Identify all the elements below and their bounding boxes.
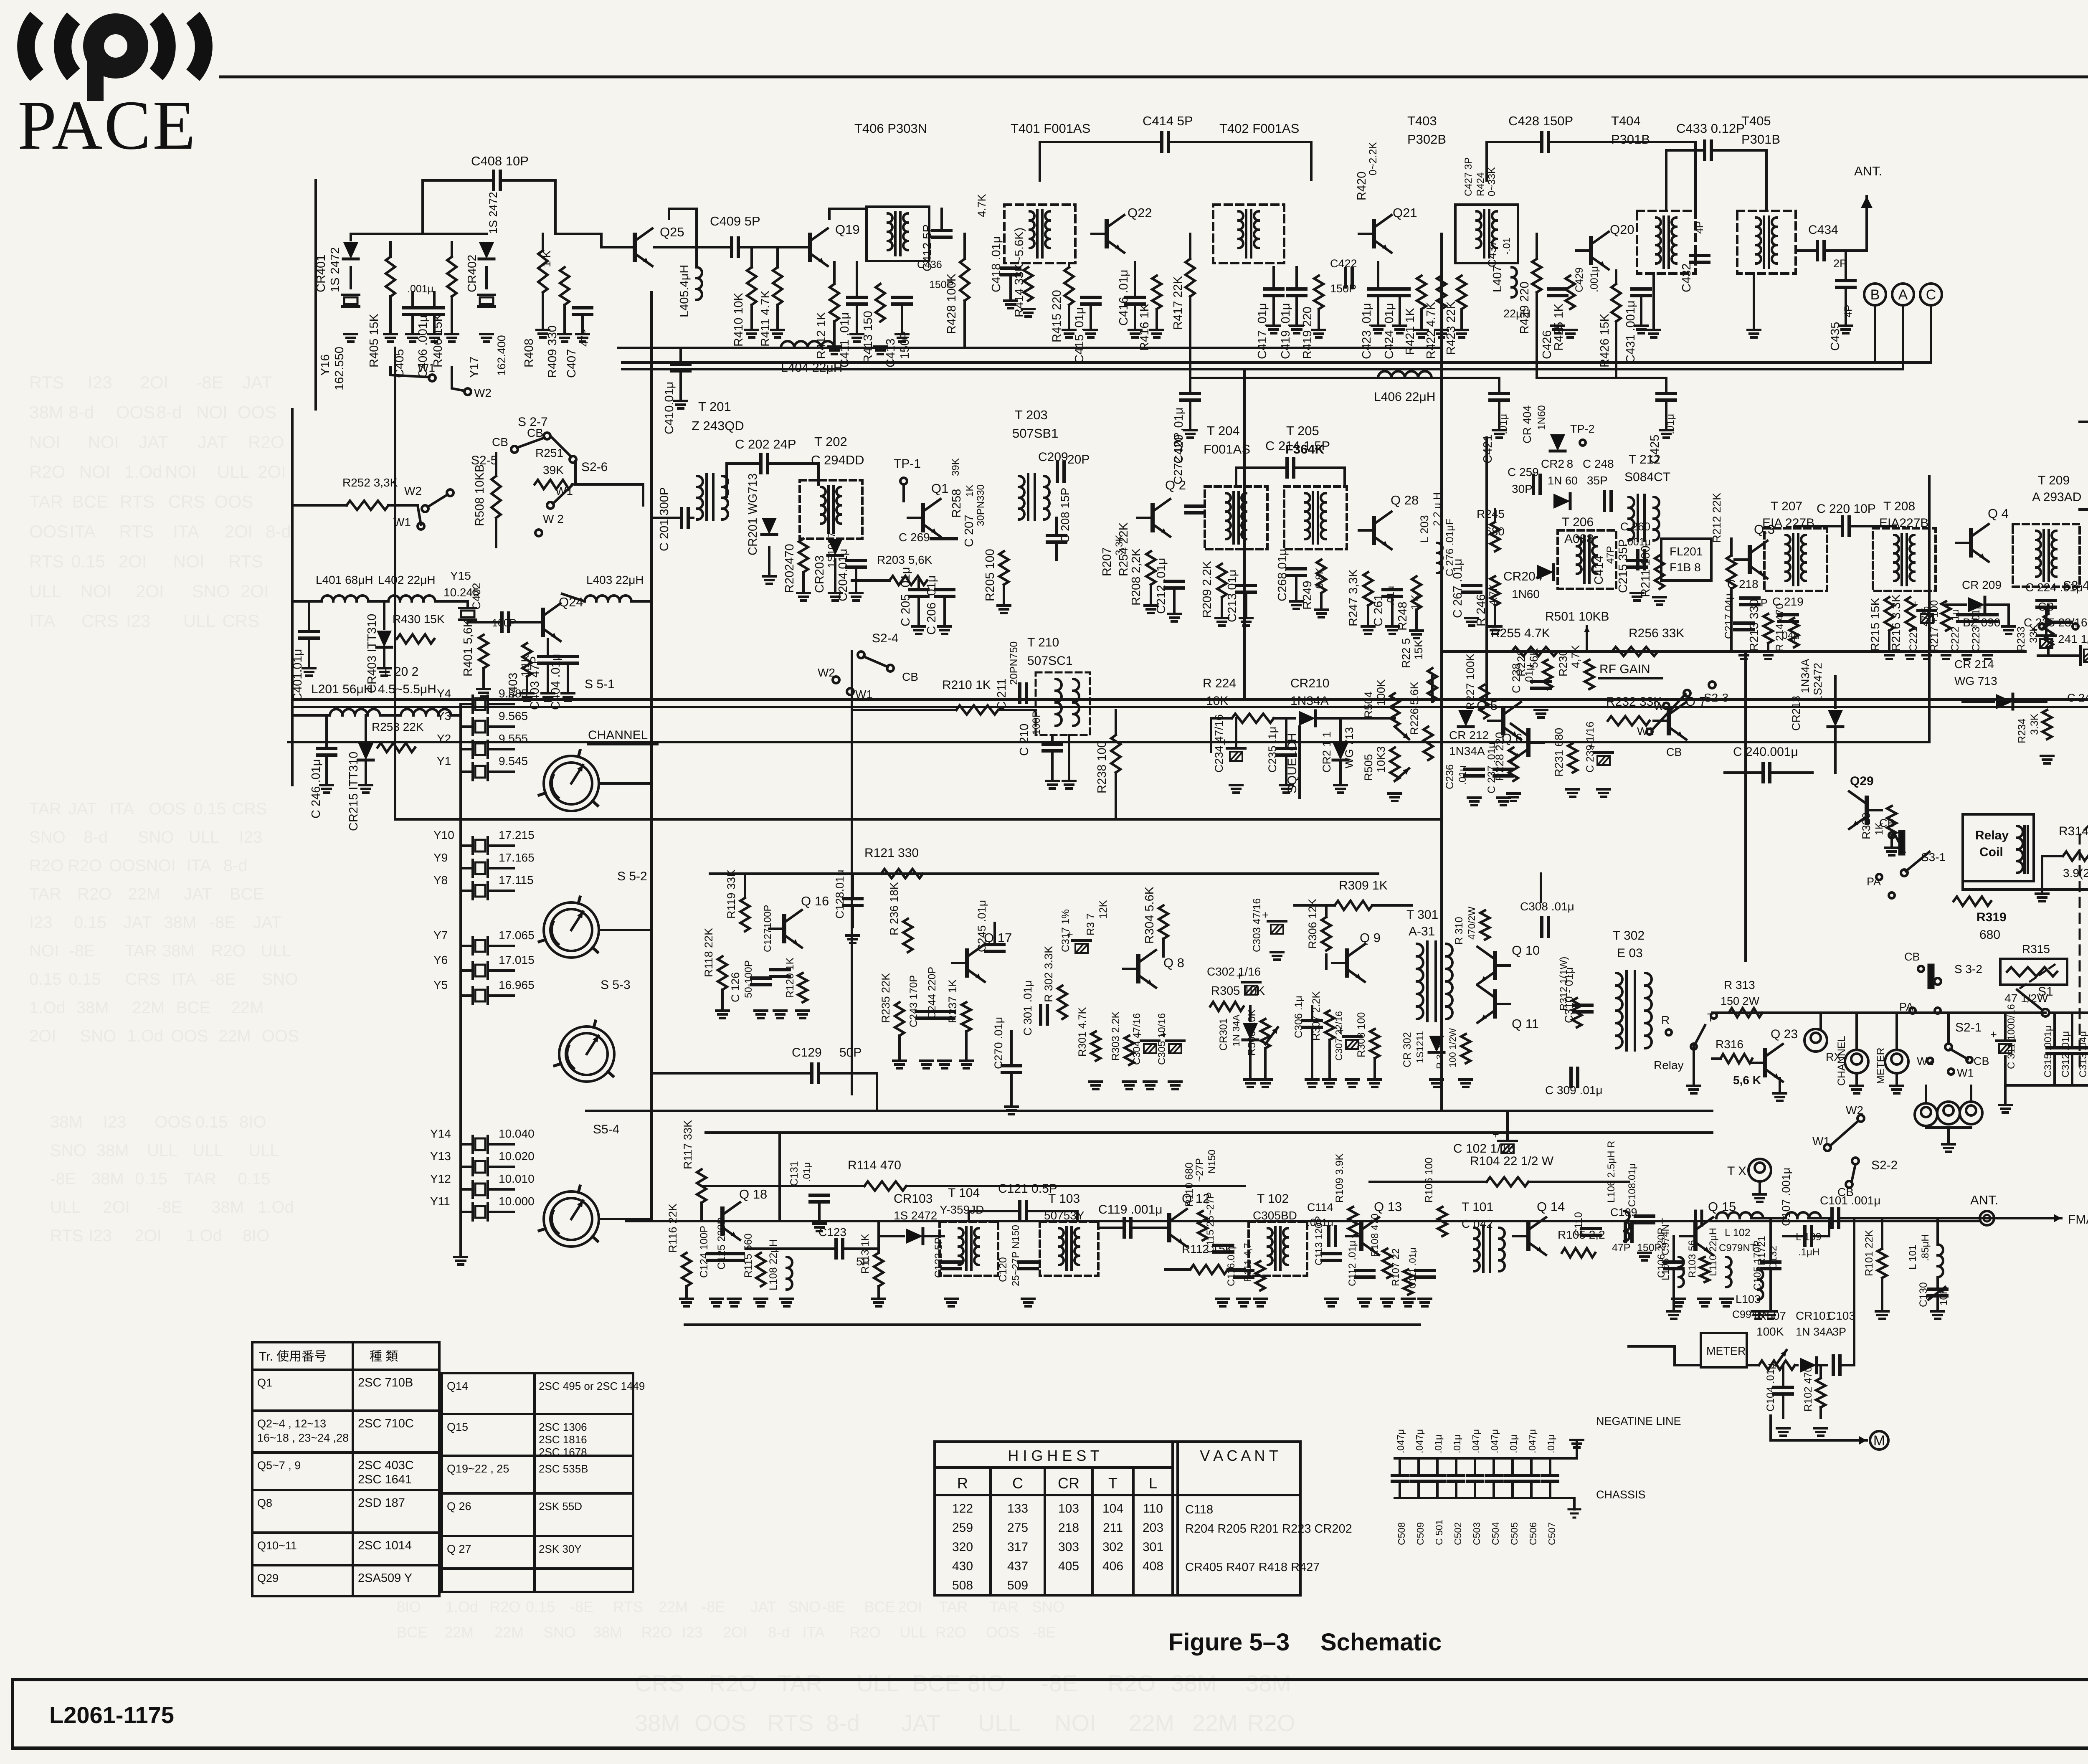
wire long vertical right of row1 xyxy=(1440,234,1443,1111)
svg-text:25~27P N150: 25~27P N150 xyxy=(1010,1225,1021,1286)
svg-text:JAT: JAT xyxy=(198,432,228,452)
svg-text:R426 15K: R426 15K xyxy=(1598,313,1612,367)
svg-text:38M: 38M xyxy=(96,1141,129,1160)
svg-text:0.15: 0.15 xyxy=(526,1598,555,1615)
svg-text:C 220 10P: C 220 10P xyxy=(1817,502,1876,516)
resistor R412 1K xyxy=(830,284,839,322)
svg-text:-8E: -8E xyxy=(50,1170,76,1188)
transformer T205 xyxy=(1284,487,1347,549)
svg-text:C 294DD: C 294DD xyxy=(811,453,864,467)
svg-text:R424: R424 xyxy=(1475,172,1486,196)
svg-text:JAT: JAT xyxy=(184,885,212,903)
svg-text:L2061-1175: L2061-1175 xyxy=(49,1702,174,1728)
svg-text:ULL: ULL xyxy=(29,581,61,601)
svg-text:Y12: Y12 xyxy=(430,1172,451,1185)
wire main bus A xyxy=(292,698,2088,701)
svg-text:ULL: ULL xyxy=(978,1710,1021,1736)
svg-text:R252 3,3K: R252 3,3K xyxy=(342,476,398,489)
svg-text:Figure 5–3: Figure 5–3 xyxy=(1168,1629,1290,1656)
svg-text:R116 22K: R116 22K xyxy=(666,1204,679,1253)
svg-text:R22 5: R22 5 xyxy=(1400,638,1412,668)
svg-text:-8E: -8E xyxy=(69,942,95,960)
svg-text:R212 22K: R212 22K xyxy=(1710,493,1723,543)
crystal Y16 xyxy=(350,267,352,288)
transformer T406 xyxy=(867,207,929,261)
svg-text:R415 220: R415 220 xyxy=(1050,290,1064,342)
svg-text:Q 14: Q 14 xyxy=(1537,1199,1565,1214)
svg-text:S2-2: S2-2 xyxy=(1871,1158,1898,1172)
svg-text:ULL: ULL xyxy=(261,942,291,960)
svg-text:T 103: T 103 xyxy=(1048,1192,1080,1206)
svg-text:1.Od: 1.Od xyxy=(258,1198,294,1217)
transistor Q21 xyxy=(1372,221,1376,246)
svg-text:T 301: T 301 xyxy=(1406,908,1438,922)
svg-text:C424 .01μ: C424 .01μ xyxy=(1383,303,1396,359)
svg-text:R253 22K: R253 22K xyxy=(372,720,424,733)
svg-text:2OI: 2OI xyxy=(140,373,168,392)
svg-text:38M: 38M xyxy=(91,1170,124,1188)
svg-text:R2O: R2O xyxy=(29,857,63,875)
svg-text:C302 1/16: C302 1/16 xyxy=(1207,965,1261,978)
svg-text:CR210: CR210 xyxy=(1290,677,1329,690)
filter FL201 xyxy=(1661,539,1711,580)
svg-text:R 310: R 310 xyxy=(1453,917,1465,945)
svg-text:C432: C432 xyxy=(1680,264,1693,292)
svg-text:C116.01μ: C116.01μ xyxy=(1226,1243,1237,1286)
svg-text:9.585: 9.585 xyxy=(499,687,528,700)
svg-text:Q 26: Q 26 xyxy=(447,1500,471,1513)
svg-text:L 203: L 203 xyxy=(1418,515,1431,543)
svg-text:35P: 35P xyxy=(1587,474,1608,487)
svg-text:T 209: T 209 xyxy=(2038,474,2070,487)
wire drop c430 xyxy=(1485,438,1488,700)
svg-text:430: 430 xyxy=(952,1559,973,1573)
svg-text:R216 3.3K: R216 3.3K xyxy=(1890,594,1903,651)
svg-text:50P: 50P xyxy=(839,1046,862,1059)
svg-text:Q 17: Q 17 xyxy=(984,930,1012,945)
svg-text:-8E: -8E xyxy=(210,970,236,988)
svg-text:CR2 1 1: CR2 1 1 xyxy=(1320,731,1333,773)
svg-text:NOI: NOI xyxy=(165,462,196,482)
svg-text:Y11: Y11 xyxy=(430,1195,450,1208)
transformer T212 xyxy=(1629,497,1634,508)
svg-text:FL201: FL201 xyxy=(1670,545,1703,558)
svg-text:20P: 20P xyxy=(1067,453,1090,466)
svg-text:R117 33K: R117 33K xyxy=(682,1120,694,1169)
svg-text:CB: CB xyxy=(902,670,918,683)
resistor R415 220 xyxy=(1064,267,1074,305)
wire rail power xyxy=(1712,1011,2045,1014)
wire audio lower rail xyxy=(706,1131,1712,1134)
svg-text:RTS: RTS xyxy=(228,551,263,571)
resistor R410 10K xyxy=(747,267,756,305)
svg-text:.01μ: .01μ xyxy=(1508,1435,1519,1453)
svg-text:.001μ: .001μ xyxy=(407,283,433,295)
svg-text:I23: I23 xyxy=(88,373,112,392)
capacitor C431 xyxy=(1632,287,1650,291)
svg-text:S 3-2: S 3-2 xyxy=(1954,963,1982,976)
svg-text:2SC 1306: 2SC 1306 xyxy=(539,1421,587,1433)
capacitor C421 .01u xyxy=(1490,392,1508,395)
lamp METER xyxy=(1885,1050,1908,1073)
svg-text:R207: R207 xyxy=(1100,547,1114,576)
svg-text:C 240.001μ: C 240.001μ xyxy=(1733,745,1798,759)
svg-text:38M: 38M xyxy=(593,1624,622,1641)
transformer T301 xyxy=(1417,944,1423,956)
svg-text:Y13: Y13 xyxy=(430,1150,451,1163)
top rule xyxy=(220,76,2088,79)
lamp RX xyxy=(1804,1029,1827,1052)
svg-text:N150: N150 xyxy=(1206,1150,1218,1173)
svg-text:R 224: R 224 xyxy=(1203,677,1236,690)
svg-text:I23: I23 xyxy=(682,1624,703,1641)
svg-text:2SC 403C: 2SC 403C xyxy=(358,1459,414,1472)
svg-text:C111 .01μ: C111 .01μ xyxy=(1407,1247,1418,1289)
svg-text:SNO: SNO xyxy=(29,828,66,847)
svg-text:303: 303 xyxy=(1058,1540,1079,1554)
transistor Q25 xyxy=(633,235,637,260)
svg-text:CRS: CRS xyxy=(635,1670,684,1696)
svg-text:TAR: TAR xyxy=(184,1170,216,1188)
svg-text:2OI: 2OI xyxy=(723,1624,747,1641)
svg-text:2OI: 2OI xyxy=(898,1598,922,1615)
svg-text:T 302: T 302 xyxy=(1613,929,1645,943)
svg-text:3.3K: 3.3K xyxy=(2029,713,2040,735)
svg-text:320: 320 xyxy=(952,1540,973,1554)
svg-text:CR101: CR101 xyxy=(1796,1309,1832,1322)
svg-text:3P: 3P xyxy=(1832,1326,1846,1338)
svg-text:38M: 38M xyxy=(162,942,195,960)
svg-text:Relay: Relay xyxy=(1654,1059,1684,1072)
svg-text:ULL: ULL xyxy=(147,1141,177,1160)
svg-text:T 202: T 202 xyxy=(814,434,847,449)
svg-text:Y14: Y14 xyxy=(430,1127,451,1140)
svg-text:CR2 8: CR2 8 xyxy=(1541,457,1573,470)
svg-text:T 203: T 203 xyxy=(1015,408,1048,422)
svg-text:2SC 535B: 2SC 535B xyxy=(539,1462,588,1475)
svg-text:162.550: 162.550 xyxy=(333,347,346,390)
wire drop s53 to tx xyxy=(778,1133,781,1221)
svg-text:Y8: Y8 xyxy=(433,874,448,887)
svg-text:R2O: R2O xyxy=(29,462,65,482)
svg-text:1.Od: 1.Od xyxy=(446,1598,478,1615)
wire s51 out xyxy=(600,782,651,785)
svg-text:8-d: 8-d xyxy=(266,522,291,541)
diode CR401 xyxy=(343,242,358,259)
svg-text:2SA509 Y: 2SA509 Y xyxy=(358,1571,412,1585)
svg-text:R115 560: R115 560 xyxy=(742,1233,754,1278)
transistor Q23 xyxy=(1763,1050,1767,1075)
svg-text:R248: R248 xyxy=(1396,602,1409,631)
svg-text:0.15: 0.15 xyxy=(74,913,106,932)
svg-text:0.15: 0.15 xyxy=(195,1113,228,1131)
wire drop right xyxy=(1928,476,1931,742)
wire s2 bus xyxy=(575,461,643,484)
svg-text:SNO: SNO xyxy=(543,1624,576,1641)
svg-text:OOS: OOS xyxy=(262,1027,299,1045)
svg-text:133: 133 xyxy=(1007,1502,1028,1516)
resistor R423 22K xyxy=(1457,276,1466,309)
svg-text:47P: 47P xyxy=(1605,546,1616,564)
svg-text:2SC 1678: 2SC 1678 xyxy=(539,1446,587,1458)
svg-text:C434: C434 xyxy=(1808,223,1838,237)
wire bus row2 bottom xyxy=(395,818,1442,821)
transistor Q7 xyxy=(1667,708,1671,733)
svg-text:T: T xyxy=(1108,1475,1117,1492)
capacitor C401 .01u xyxy=(300,630,318,633)
svg-text:-8E: -8E xyxy=(570,1598,593,1615)
svg-text:NOI: NOI xyxy=(29,942,59,960)
transformer T405 xyxy=(1737,211,1796,274)
svg-text:2SC 710B: 2SC 710B xyxy=(358,1376,413,1389)
svg-text:470/2W: 470/2W xyxy=(1466,906,1477,940)
wire left drop xyxy=(291,409,294,785)
svg-text:.047μ: .047μ xyxy=(1395,1429,1406,1453)
wire left top drop xyxy=(314,180,317,409)
svg-text:R505: R505 xyxy=(1362,754,1375,781)
svg-text:1N34A: 1N34A xyxy=(1799,659,1812,693)
svg-text:S2-1: S2-1 xyxy=(1955,1021,1982,1034)
svg-text:Q15: Q15 xyxy=(447,1421,468,1433)
svg-text:C315 .001μ: C315 .001μ xyxy=(2042,1025,2054,1077)
svg-text:R205 100: R205 100 xyxy=(983,549,997,601)
diode CR215 xyxy=(358,743,373,760)
svg-text:16~18 , 23~24 ,28: 16~18 , 23~24 ,28 xyxy=(257,1432,349,1444)
svg-text:.01μ: .01μ xyxy=(1452,1435,1462,1453)
svg-text:C508: C508 xyxy=(1396,1522,1407,1545)
svg-text:Q19: Q19 xyxy=(835,222,860,237)
svg-text:+: + xyxy=(1135,1028,1142,1041)
svg-text:C506: C506 xyxy=(1528,1522,1538,1545)
svg-text:C112 .01μ: C112 .01μ xyxy=(1347,1241,1358,1286)
transformer T302 xyxy=(1616,973,1622,986)
svg-text:15K: 15K xyxy=(1412,640,1425,660)
svg-text:.047μ: .047μ xyxy=(1470,1429,1481,1453)
svg-text:RX: RX xyxy=(1826,1051,1842,1063)
svg-text:R308 100: R308 100 xyxy=(1356,1012,1367,1057)
svg-text:C 201 300P: C 201 300P xyxy=(658,487,671,551)
svg-text:S084CT: S084CT xyxy=(1624,470,1670,484)
svg-text:R215 15K: R215 15K xyxy=(1869,597,1882,651)
svg-text:+: + xyxy=(1493,1128,1499,1141)
svg-text:Q2~4 , 12~13: Q2~4 , 12~13 xyxy=(257,1417,326,1430)
svg-text:+: + xyxy=(1160,1028,1167,1041)
svg-text:~27P: ~27P xyxy=(1194,1158,1205,1182)
svg-text:T 101: T 101 xyxy=(1462,1200,1493,1214)
svg-text:150 2W: 150 2W xyxy=(1721,995,1760,1007)
svg-text:R: R xyxy=(957,1475,968,1492)
svg-text:C402: C402 xyxy=(470,583,483,610)
svg-text:Y-359JD: Y-359JD xyxy=(940,1203,984,1216)
svg-text:Q10~11: Q10~11 xyxy=(257,1539,297,1552)
svg-text:38M: 38M xyxy=(635,1710,680,1736)
svg-text:4,7K: 4,7K xyxy=(1569,645,1582,668)
svg-text:TAR: TAR xyxy=(990,1598,1019,1615)
svg-text:R255 4.7K: R255 4.7K xyxy=(1491,626,1550,640)
svg-text:C109: C109 xyxy=(1610,1206,1637,1219)
svg-text:406: 406 xyxy=(1102,1559,1123,1573)
svg-text:C114: C114 xyxy=(1307,1201,1333,1214)
svg-text:TP-1: TP-1 xyxy=(894,457,921,471)
svg-text:L 102: L 102 xyxy=(1725,1227,1751,1239)
svg-text:22M: 22M xyxy=(218,1027,251,1045)
svg-text:17.115: 17.115 xyxy=(499,874,534,887)
svg-text:R2O: R2O xyxy=(641,1624,672,1641)
svg-text:2SC 1014: 2SC 1014 xyxy=(358,1539,412,1552)
svg-text:-8E: -8E xyxy=(1032,1624,1056,1641)
svg-text:Q14: Q14 xyxy=(447,1380,468,1392)
svg-text:R430 15K: R430 15K xyxy=(393,613,445,626)
svg-text:8-d: 8-d xyxy=(768,1624,790,1641)
svg-text:R114 470: R114 470 xyxy=(848,1158,901,1172)
svg-text:R238 100: R238 100 xyxy=(1095,741,1109,793)
svg-text:T 205: T 205 xyxy=(1286,423,1319,438)
svg-text:302: 302 xyxy=(1102,1540,1123,1554)
svg-text:2SC 495 or 2SC 1449: 2SC 495 or 2SC 1449 xyxy=(539,1380,645,1392)
svg-text:3.9(2W): 3.9(2W) xyxy=(2063,867,2088,879)
svg-text:OOS: OOS xyxy=(171,1027,208,1045)
svg-text:R2O: R2O xyxy=(709,1670,757,1696)
svg-text:T X: T X xyxy=(1727,1164,1746,1178)
svg-text:C427 3P: C427 3P xyxy=(1463,157,1474,196)
svg-text:2OI: 2OI xyxy=(225,522,253,541)
wire main bus B xyxy=(292,706,2088,708)
svg-text:Z 243QD: Z 243QD xyxy=(692,418,744,433)
svg-text:C131: C131 xyxy=(788,1161,800,1186)
svg-text:C410.01μ: C410.01μ xyxy=(663,382,676,434)
svg-text:R412 1K: R412 1K xyxy=(815,312,828,359)
svg-text:R501 10KB: R501 10KB xyxy=(1545,610,1609,623)
transistor Q12 xyxy=(1167,1215,1171,1240)
svg-text:R101 22K: R101 22K xyxy=(1863,1229,1875,1276)
transformer T104 xyxy=(940,1222,998,1276)
svg-text:TAR: TAR xyxy=(29,885,61,903)
svg-text:20PN750: 20PN750 xyxy=(1008,641,1020,685)
svg-text:CB: CB xyxy=(1666,746,1682,758)
svg-text:BCE: BCE xyxy=(864,1598,895,1615)
svg-text:C507: C507 xyxy=(1546,1522,1557,1545)
svg-text:R113 1K: R113 1K xyxy=(859,1234,871,1274)
svg-text:-8E: -8E xyxy=(196,373,223,392)
svg-text:R319: R319 xyxy=(1977,910,2007,924)
svg-text:S 5-3: S 5-3 xyxy=(601,978,631,992)
svg-text:T401 F001AS: T401 F001AS xyxy=(1011,121,1090,136)
svg-text:R202470: R202470 xyxy=(783,544,796,593)
svg-text:H I G H E S T: H I G H E S T xyxy=(1008,1447,1099,1464)
svg-text:2OI: 2OI xyxy=(119,551,147,571)
svg-text:2OI: 2OI xyxy=(103,1198,129,1217)
svg-text:R401 5,6K: R401 5,6K xyxy=(461,619,475,677)
transistor Q13 xyxy=(1359,1224,1363,1249)
transistor Q8 xyxy=(1136,956,1140,981)
svg-text:R2O: R2O xyxy=(935,1624,966,1641)
svg-text:RTS: RTS xyxy=(50,1227,83,1245)
svg-text:SNO: SNO xyxy=(192,581,230,601)
svg-text:P301B: P301B xyxy=(1611,132,1650,147)
svg-text:38M: 38M xyxy=(1171,1670,1216,1696)
wire relay xyxy=(1693,1047,1695,1086)
svg-text:122: 122 xyxy=(952,1502,973,1516)
svg-text:NOI: NOI xyxy=(88,432,119,452)
svg-text:R417 22K: R417 22K xyxy=(1171,276,1185,330)
transformer T403 xyxy=(1455,205,1518,263)
transistor Q16 xyxy=(782,916,786,941)
crystal Y17 xyxy=(485,267,488,288)
svg-text:R203 5,6K: R203 5,6K xyxy=(877,553,933,566)
svg-text:C 269: C 269 xyxy=(899,531,930,544)
svg-text:R: R xyxy=(1661,1014,1670,1026)
svg-text:ULL: ULL xyxy=(183,611,215,631)
svg-text:PACE: PACE xyxy=(18,86,197,164)
wire long drop q25-tx xyxy=(650,292,653,1221)
svg-text:OOS: OOS xyxy=(238,402,276,422)
svg-text:RTS: RTS xyxy=(29,551,64,571)
wire s52 out xyxy=(600,929,651,931)
svg-text:22M: 22M xyxy=(128,885,160,903)
svg-text:R233: R233 xyxy=(2015,626,2027,651)
svg-text:C428 150P: C428 150P xyxy=(1508,114,1573,128)
svg-text:R208 2,2K: R208 2,2K xyxy=(1130,548,1143,606)
lamp CHANNEL xyxy=(1845,1050,1868,1073)
svg-text:C 248: C 248 xyxy=(1583,457,1614,470)
svg-text:RTS: RTS xyxy=(120,492,155,512)
svg-text:ITA: ITA xyxy=(186,857,211,875)
svg-text:C414 5P: C414 5P xyxy=(1143,114,1193,128)
svg-text:C108.01μ: C108.01μ xyxy=(1627,1163,1638,1207)
svg-text:38M: 38M xyxy=(76,999,109,1017)
resistor R426 15K xyxy=(1612,284,1621,322)
svg-text:W2: W2 xyxy=(474,386,492,399)
svg-text:8-d: 8-d xyxy=(223,857,248,875)
svg-text:R425 1K: R425 1K xyxy=(1552,303,1566,351)
svg-text:R204 R205 R201 R223 CR202: R204 R205 R201 R223 CR202 xyxy=(1185,1522,1352,1536)
svg-text:.001μ: .001μ xyxy=(1589,266,1600,292)
svg-text:R2O: R2O xyxy=(850,1624,881,1641)
svg-text:C124 100P: C124 100P xyxy=(698,1226,710,1278)
svg-text:1.Od: 1.Od xyxy=(186,1227,222,1245)
svg-text:T405: T405 xyxy=(1741,114,1771,128)
wire tx chain rail xyxy=(626,1220,1979,1222)
wire pwr bottom xyxy=(2005,1084,2088,1087)
svg-text:CR213: CR213 xyxy=(1790,696,1802,731)
svg-text:CRS: CRS xyxy=(168,492,205,512)
svg-text:5,6 K: 5,6 K xyxy=(1733,1074,1761,1087)
svg-text:2SK 55D: 2SK 55D xyxy=(539,1500,582,1513)
svg-text:I23: I23 xyxy=(239,828,263,847)
svg-text:C123: C123 xyxy=(818,1226,846,1239)
wire tx bottom rail xyxy=(685,1323,1420,1326)
svg-text:R428 100K: R428 100K xyxy=(945,273,958,334)
svg-text:Q25: Q25 xyxy=(660,225,684,239)
svg-text:38M: 38M xyxy=(164,913,197,932)
svg-text:R121 330: R121 330 xyxy=(864,846,919,860)
svg-text:C113 120P: C113 120P xyxy=(1313,1216,1325,1265)
svg-text:Q29: Q29 xyxy=(1850,774,1874,788)
svg-text:R320: R320 xyxy=(1860,812,1873,839)
svg-text:W1: W1 xyxy=(418,361,435,374)
svg-text:P301B: P301B xyxy=(1741,132,1780,147)
svg-text:C 261: C 261 xyxy=(1372,594,1385,626)
svg-text:R103 56: R103 56 xyxy=(1687,1240,1698,1278)
svg-text:L: L xyxy=(1149,1475,1157,1492)
wire drop mid xyxy=(1243,369,1246,700)
resistor R408 1K xyxy=(538,251,547,292)
svg-text:C236: C236 xyxy=(1444,764,1456,789)
svg-text:L403 22μH: L403 22μH xyxy=(586,573,644,586)
svg-text:S 5-2: S 5-2 xyxy=(617,869,647,883)
svg-text:38M: 38M xyxy=(50,1113,83,1131)
svg-text:Coil: Coil xyxy=(1979,845,2003,859)
